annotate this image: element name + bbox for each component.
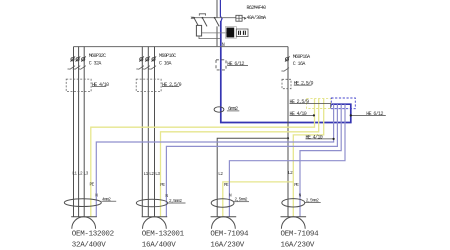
svg-text:L2: L2 — [218, 172, 223, 177]
svg-text:OEM-132002: OEM-132002 — [72, 231, 114, 239]
svg-text:2,5mm2: 2,5mm2 — [306, 199, 319, 204]
socket X1 dome — [72, 217, 96, 229]
svg-text:HE 2,5/9: HE 2,5/9 — [290, 99, 310, 105]
socket X2 base line — [142, 216, 168, 218]
svg-text:HE 6/12: HE 6/12 — [227, 61, 244, 67]
supply phase line L — [216, 0, 218, 47]
N cable dashed box — [216, 60, 226, 70]
RCD linkage bracket — [199, 14, 205, 16]
PE terminal dashed box (yellow) — [307, 98, 331, 108]
svg-text:PE: PE — [294, 183, 299, 188]
aux contact glyph 2 — [243, 31, 246, 35]
breaker Q2 terminal marks — [139, 56, 156, 61]
svg-text:OEM-71094: OEM-71094 — [281, 231, 320, 239]
breaker Q1 switch blades — [68, 66, 86, 70]
svg-text:16A/230V: 16A/230V — [281, 241, 315, 249]
svg-text:N: N — [95, 194, 98, 199]
aux contact glyph 1 — [238, 31, 241, 35]
socket X4 base line — [281, 216, 307, 218]
PE wire socket X1 (yellow) — [91, 99, 315, 217]
RCD contact blade pole1 — [194, 18, 199, 27]
RCD contact blade pole3 — [215, 18, 220, 27]
svg-text:R62M4F40: R62M4F40 — [247, 5, 267, 11]
svg-text:L2: L2 — [149, 172, 154, 177]
RCD U1 input line — [192, 17, 245, 19]
arrow head — [244, 17, 246, 20]
svg-text:6mm2: 6mm2 — [228, 106, 238, 112]
socket X2 dome — [143, 217, 167, 229]
svg-text:M60P16C: M60P16C — [159, 53, 176, 59]
svg-text:L3: L3 — [84, 171, 89, 176]
svg-text:HE 4/10: HE 4/10 — [306, 134, 323, 140]
socket X2 ellipse — [136, 199, 167, 207]
svg-text:PE: PE — [160, 183, 165, 188]
svg-text:N: N — [165, 194, 168, 199]
breaker Q2 pole L1 wire — [141, 47, 143, 217]
svg-text:L1: L1 — [72, 171, 77, 176]
socket X4 ellipse — [282, 199, 305, 207]
N wire socket X3 (violet) — [229, 104, 345, 217]
PE wire socket X3 (yellow) — [223, 182, 293, 217]
cable dashed box Q1 — [66, 79, 91, 92]
breaker Q2 switch blades — [136, 66, 156, 70]
svg-text:L2: L2 — [78, 171, 83, 176]
N wire socket X2 (violet) — [166, 104, 337, 217]
6mm2 marker ellipse — [214, 107, 224, 112]
breaker Q1 pole L2 wire — [78, 47, 80, 217]
breaker Q3 terminal mark — [285, 58, 288, 61]
socket X1 base line — [71, 216, 97, 218]
N wire socket X1 (violet) — [96, 104, 333, 217]
svg-text:N: N — [229, 194, 232, 199]
RCD sensing coil frame — [225, 27, 236, 39]
svg-text:C 32A: C 32A — [89, 61, 102, 67]
N terminal dashed box — [331, 98, 355, 109]
svg-text:M60P32C: M60P32C — [89, 53, 106, 59]
breaker Q1 terminal marks — [71, 56, 86, 61]
svg-text:M60P16A: M60P16A — [293, 54, 310, 60]
svg-text:PE: PE — [90, 182, 95, 187]
L2 branch junction — [287, 137, 289, 139]
socket X1 ellipse — [64, 199, 101, 207]
socket X3 dome — [212, 217, 236, 229]
neutral N main wire (blue) — [220, 0, 222, 22]
svg-text:16A/400V: 16A/400V — [142, 241, 176, 249]
svg-text:N: N — [299, 194, 302, 199]
test button crossed box — [236, 15, 242, 21]
svg-text:OEM-132001: OEM-132001 — [142, 231, 185, 239]
RCD contact dots — [193, 17, 195, 19]
socket X4 dome — [281, 217, 305, 229]
svg-text:40A/30mA: 40A/30mA — [247, 15, 267, 21]
L2 branch wire to socket X3 — [217, 138, 288, 217]
svg-text:4mm2: 4mm2 — [102, 197, 111, 202]
RCD test resistor — [196, 25, 201, 36]
PE wire socket X4 (yellow) — [293, 99, 323, 217]
wire to sensing coil — [202, 32, 226, 34]
main bus wire — [74, 46, 289, 48]
svg-text:HE 2,5/9: HE 2,5/9 — [294, 80, 314, 86]
breaker Q2 pole L3 wire — [154, 47, 156, 217]
wire resistor to N — [199, 36, 220, 39]
svg-text:L2: L2 — [288, 171, 293, 176]
PE wire socket X2 (yellow) — [161, 99, 319, 217]
breaker Q1 pole L3 wire — [83, 47, 85, 217]
socket X3 base line — [211, 216, 237, 218]
breaker Q2 pole L2 wire — [147, 47, 149, 217]
cable dashed box Q2 — [136, 79, 161, 92]
svg-text:HE 6/12: HE 6/12 — [366, 111, 383, 117]
svg-text:HE 4/10: HE 4/10 — [290, 111, 307, 117]
svg-text:C 16A: C 16A — [159, 61, 172, 67]
RCD terminal x-mark — [191, 17, 193, 19]
RCD sensing coil core — [226, 28, 234, 38]
svg-text:PE: PE — [224, 183, 229, 188]
svg-text:L3: L3 — [155, 172, 160, 177]
svg-text:16A/230V: 16A/230V — [210, 241, 244, 249]
svg-text:OEM-71094: OEM-71094 — [210, 231, 249, 239]
cable dashed box Q3 — [282, 79, 291, 88]
svg-text:N: N — [222, 42, 225, 48]
RCD contact blade pole2 — [202, 18, 207, 27]
N wire socket X4 (violet) — [300, 104, 341, 217]
breaker Q3 switch blade — [281, 68, 289, 72]
RCD aux contact box — [236, 29, 248, 37]
socket X3 ellipse — [211, 199, 234, 207]
breaker Q1 pole L1 wire — [73, 47, 75, 217]
svg-text:HE 4/10: HE 4/10 — [92, 82, 109, 88]
breaker Q3 wire from bus — [287, 47, 289, 217]
svg-text:2,5mm2: 2,5mm2 — [169, 199, 182, 204]
svg-text:32A/400V: 32A/400V — [72, 241, 106, 249]
svg-text:HE 2,5/9: HE 2,5/9 — [162, 82, 182, 88]
svg-text:C 16A: C 16A — [293, 61, 306, 67]
